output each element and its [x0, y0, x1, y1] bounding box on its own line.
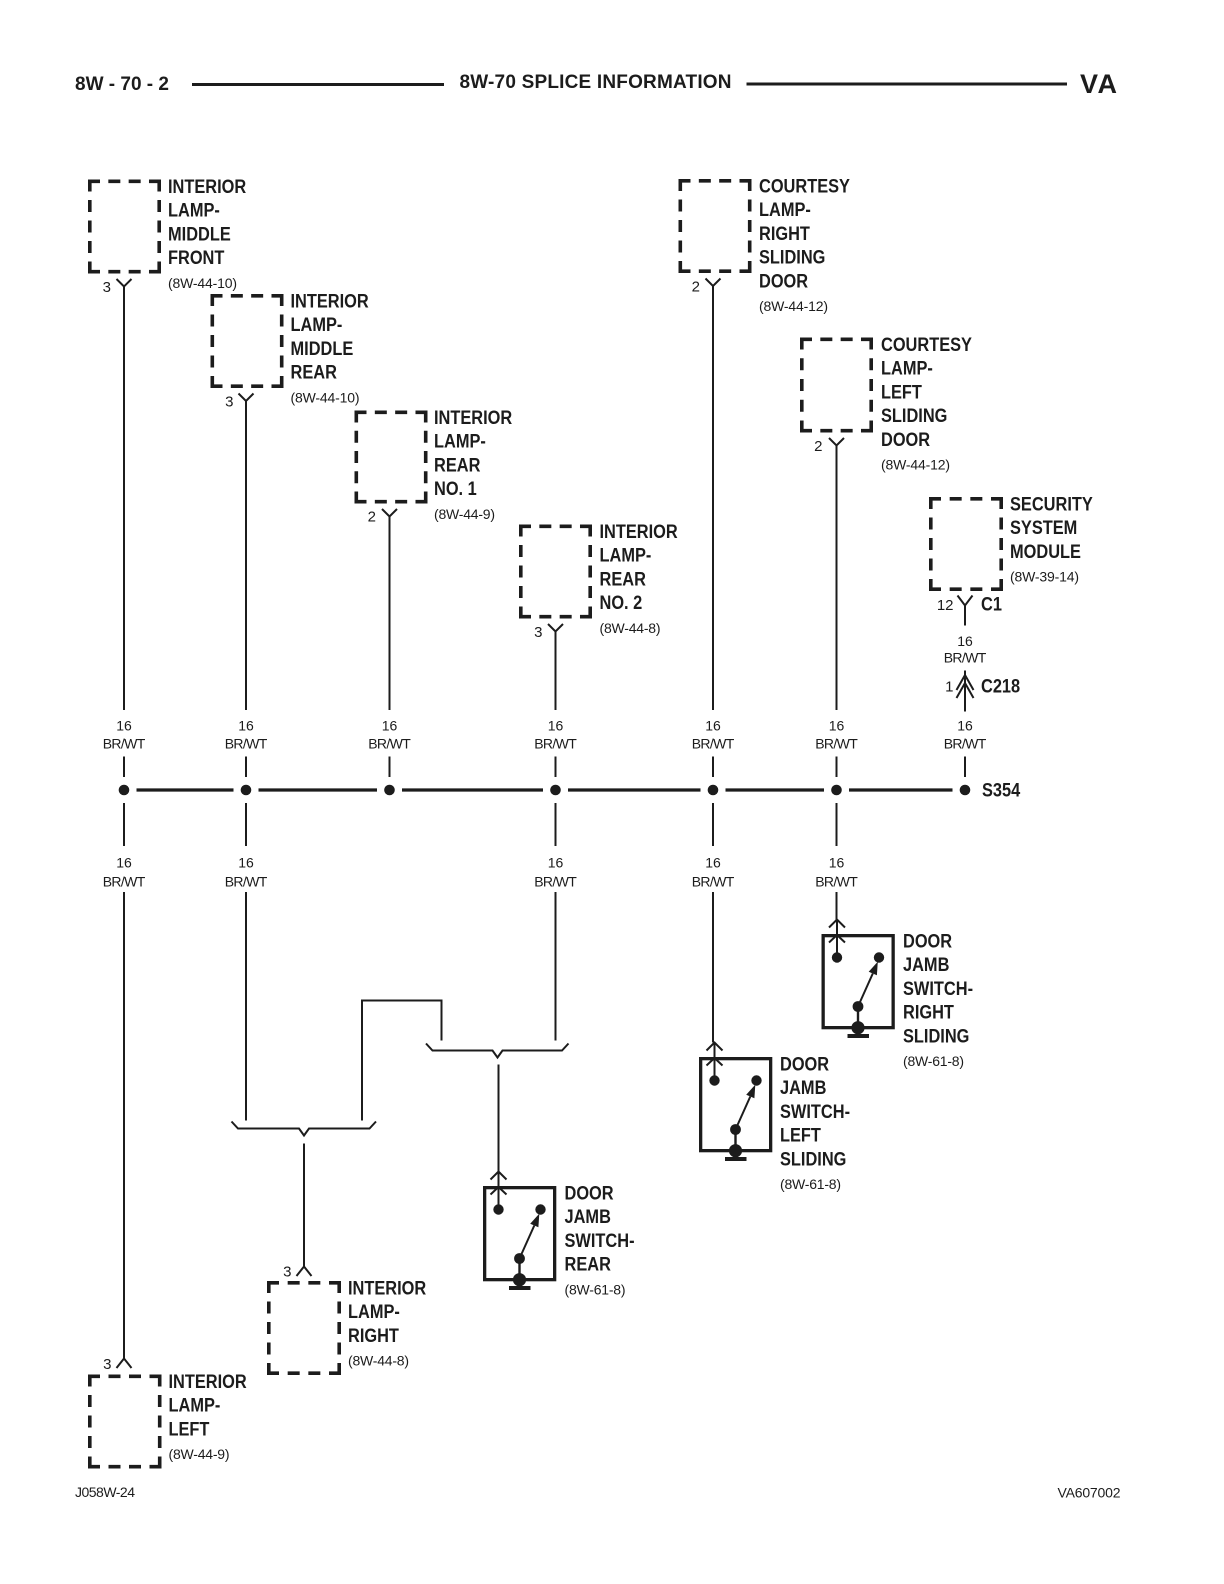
- wire below splice upper segment, x=124: [123, 803, 125, 846]
- svg-text:JAMB: JAMB: [565, 1206, 611, 1228]
- connector C1 symbol at security system module: [958, 596, 973, 606]
- svg-text:2: 2: [368, 509, 376, 526]
- svg-text:SLIDING: SLIDING: [903, 1025, 969, 1047]
- svg-text:LEFT: LEFT: [780, 1124, 821, 1146]
- svg-text:16: 16: [957, 717, 973, 733]
- svg-text:(8W-44-8): (8W-44-8): [348, 1353, 409, 1369]
- merge brace feeding interior lamp-right: [232, 1122, 377, 1136]
- svg-text:INTERIOR: INTERIOR: [291, 290, 369, 312]
- svg-text:LAMP-: LAMP-: [759, 199, 811, 221]
- wire through connector C218: [964, 671, 966, 712]
- splice junction dot at x=124: [119, 785, 130, 796]
- svg-text:SLIDING: SLIDING: [881, 405, 947, 427]
- svg-text:LAMP-: LAMP-: [168, 199, 220, 221]
- svg-text:BR/WT: BR/WT: [534, 735, 577, 751]
- label text COURTESY LAMP-RIGHT SLIDING DOOR: [759, 175, 850, 314]
- wire gauge label 16 BR/WT below splice, x=124: [103, 854, 146, 889]
- svg-text:DOOR: DOOR: [780, 1053, 829, 1075]
- wire below gauge label, x=713: [712, 892, 714, 1043]
- svg-text:3: 3: [534, 624, 542, 641]
- svg-text:REAR: REAR: [565, 1253, 611, 1275]
- wire below gauge label, x=836.5: [836, 892, 838, 920]
- wire gauge label 16 BR/WT below splice, x=713: [692, 854, 735, 889]
- svg-text:SYSTEM: SYSTEM: [1010, 517, 1077, 539]
- svg-text:BR/WT: BR/WT: [692, 735, 735, 751]
- svg-text:16: 16: [238, 854, 254, 870]
- svg-text:RIGHT: RIGHT: [903, 1001, 954, 1023]
- wire gauge label 16 BR/WT below C1: [944, 633, 987, 666]
- svg-text:LAMP-: LAMP-: [881, 357, 933, 379]
- svg-text:16: 16: [705, 717, 721, 733]
- svg-text:(8W-44-9): (8W-44-9): [434, 506, 495, 522]
- wire gauge label 16 BR/WT above splice, x=555.5: [534, 717, 577, 751]
- svg-text:VA: VA: [1080, 69, 1117, 99]
- svg-text:BR/WT: BR/WT: [944, 650, 987, 666]
- svg-text:3: 3: [103, 1356, 111, 1373]
- svg-text:NO. 2: NO. 2: [600, 592, 643, 614]
- svg-text:INTERIOR: INTERIOR: [600, 521, 678, 543]
- wire from brace to door jamb switch-rear: [498, 1065, 500, 1172]
- merge brace feeding door jamb switch-rear: [426, 1044, 569, 1058]
- header right rule: [747, 83, 1068, 86]
- svg-text:3: 3: [225, 394, 233, 411]
- wire gauge label 16 BR/WT above splice, x=246: [225, 717, 268, 751]
- wire from brace to interior lamp-right: [303, 1144, 305, 1267]
- svg-text:BR/WT: BR/WT: [815, 735, 858, 751]
- svg-text:DOOR: DOOR: [903, 930, 952, 952]
- svg-text:(8W-61-8): (8W-61-8): [780, 1176, 841, 1192]
- label text INTERIOR LAMP-REAR NO. 1: [434, 407, 512, 522]
- svg-text:REAR: REAR: [434, 454, 480, 476]
- svg-text:3: 3: [103, 279, 111, 296]
- label text door jamb switch-right sliding label: [903, 930, 973, 1069]
- svg-text:16: 16: [829, 717, 845, 733]
- wire segment above gauge label, x=124: [123, 287, 125, 711]
- splice junction dot at x=965: [960, 785, 971, 796]
- svg-text:16: 16: [116, 717, 132, 733]
- svg-text:DOOR: DOOR: [759, 270, 808, 292]
- svg-text:RIGHT: RIGHT: [759, 223, 810, 245]
- wire below gauge label, x=555.5: [555, 892, 557, 1041]
- svg-text:1: 1: [945, 679, 953, 696]
- svg-text:C218: C218: [981, 675, 1020, 697]
- svg-text:SLIDING: SLIDING: [759, 246, 825, 268]
- svg-text:INTERIOR: INTERIOR: [434, 407, 512, 429]
- svg-text:(8W-44-12): (8W-44-12): [881, 457, 950, 473]
- wire gauge label 16 BR/WT above splice, x=713: [692, 717, 735, 751]
- svg-text:16: 16: [957, 633, 973, 649]
- svg-text:12: 12: [937, 597, 954, 614]
- svg-text:BR/WT: BR/WT: [103, 873, 146, 889]
- connector at interior lamp-rear no. 1 pin 2: [382, 509, 397, 517]
- wire gauge label 16 BR/WT above splice, x=836.5: [815, 717, 858, 751]
- splice junction dot at x=713: [708, 785, 719, 796]
- svg-text:MIDDLE: MIDDLE: [168, 223, 231, 245]
- connector at interior lamp-middle front pin 3: [117, 279, 132, 287]
- header left rule: [192, 83, 444, 86]
- component SECURITY SYSTEM MODULE (dashed box): [929, 497, 1003, 591]
- svg-text:JAMB: JAMB: [780, 1077, 826, 1099]
- splice junction dot at x=555.5: [550, 785, 561, 796]
- svg-text:LAMP-: LAMP-: [434, 430, 486, 452]
- svg-text:REAR: REAR: [291, 361, 337, 383]
- svg-text:J058W-24: J058W-24: [75, 1484, 135, 1500]
- svg-text:SLIDING: SLIDING: [780, 1148, 846, 1170]
- wire below splice upper segment, x=836.5: [836, 803, 838, 846]
- component INTERIOR LAMP-REAR NO. 1 (dashed box): [355, 411, 428, 504]
- svg-text:16: 16: [116, 854, 132, 870]
- svg-text:8W - 70 - 2: 8W - 70 - 2: [75, 74, 169, 95]
- svg-text:NO. 1: NO. 1: [434, 478, 477, 500]
- wire segment above gauge label, x=389.5: [389, 517, 391, 711]
- wire segment below gauge label to splice, x=836.5: [836, 757, 838, 778]
- component INTERIOR LAMP-RIGHT (dashed box): [267, 1281, 341, 1375]
- svg-text:RIGHT: RIGHT: [348, 1325, 399, 1347]
- door jamb switch-rear: [485, 1172, 555, 1289]
- svg-text:2: 2: [692, 279, 700, 296]
- svg-text:REAR: REAR: [600, 568, 646, 590]
- svg-text:DOOR: DOOR: [881, 428, 930, 450]
- svg-text:BR/WT: BR/WT: [692, 873, 735, 889]
- svg-text:SWITCH-: SWITCH-: [903, 978, 973, 1000]
- svg-text:(8W-61-8): (8W-61-8): [565, 1281, 626, 1297]
- label text door jamb switch-rear label: [565, 1182, 635, 1297]
- wire segment below gauge label to splice, x=246: [245, 757, 247, 778]
- label text INTERIOR LAMP-LEFT: [169, 1371, 247, 1462]
- wire below splice upper segment, x=713: [712, 803, 714, 846]
- splice junction dot at x=389.5: [384, 785, 395, 796]
- connector at courtesy lamp-right sliding door pin 2: [706, 279, 721, 287]
- wire segment above gauge label, x=836.5: [836, 446, 838, 711]
- connector at interior lamp-right pin 3: [297, 1267, 312, 1277]
- wire segment above gauge label, x=246: [245, 401, 247, 710]
- component INTERIOR LAMP-MIDDLE FRONT (dashed box): [88, 180, 161, 274]
- svg-text:LEFT: LEFT: [881, 381, 922, 403]
- svg-text:16: 16: [548, 854, 564, 870]
- svg-text:16: 16: [382, 717, 398, 733]
- svg-text:SECURITY: SECURITY: [1010, 493, 1093, 515]
- wire gauge label 16 BR/WT below splice, x=836.5: [815, 854, 858, 889]
- wire segment below gauge label to splice, x=124: [123, 757, 125, 778]
- wire below splice upper segment, x=246: [245, 803, 247, 846]
- svg-text:(8W-61-8): (8W-61-8): [903, 1053, 964, 1069]
- component COURTESY LAMP-RIGHT SLIDING DOOR (dashed box): [679, 179, 752, 273]
- splice bus wire segment 124-246: [137, 788, 234, 791]
- splice bus wire segment 713-836.5: [726, 788, 825, 791]
- svg-text:VA607002: VA607002: [1058, 1485, 1121, 1501]
- svg-text:MIDDLE: MIDDLE: [291, 338, 354, 360]
- svg-text:INTERIOR: INTERIOR: [168, 176, 246, 198]
- svg-text:DOOR: DOOR: [565, 1182, 614, 1204]
- splice bus wire segment 389.5-555.5: [402, 788, 543, 791]
- svg-text:S354: S354: [982, 779, 1020, 801]
- svg-text:JAMB: JAMB: [903, 954, 949, 976]
- splice junction dot at x=246: [241, 785, 252, 796]
- splice bus wire segment 555.5-713: [568, 788, 701, 791]
- svg-text:BR/WT: BR/WT: [944, 735, 987, 751]
- svg-text:INTERIOR: INTERIOR: [348, 1277, 426, 1299]
- door jamb switch-right sliding: [823, 920, 893, 1037]
- component INTERIOR LAMP-MIDDLE REAR (dashed box): [211, 294, 284, 388]
- svg-text:16: 16: [829, 854, 845, 870]
- wire segment below C218 label to splice, x=965: [964, 757, 966, 778]
- label text INTERIOR LAMP-MIDDLE FRONT: [168, 176, 246, 291]
- wire from C1 pin 12 (upper): [964, 606, 966, 626]
- wire gauge label 16 BR/WT below splice, x=555.5: [534, 854, 577, 889]
- svg-text:3: 3: [283, 1264, 291, 1281]
- svg-text:C1: C1: [981, 593, 1002, 615]
- label text INTERIOR LAMP-MIDDLE REAR: [291, 290, 369, 405]
- label text COURTESY LAMP-LEFT SLIDING DOOR: [881, 334, 972, 473]
- wire segment above gauge label, x=555.5: [555, 632, 557, 711]
- svg-text:LAMP-: LAMP-: [348, 1301, 400, 1323]
- svg-text:FRONT: FRONT: [168, 247, 224, 269]
- wire below gauge label, x=246: [245, 892, 247, 1121]
- svg-text:COURTESY: COURTESY: [881, 334, 972, 356]
- svg-text:BR/WT: BR/WT: [225, 735, 268, 751]
- label text door jamb switch-left sliding label: [780, 1053, 850, 1192]
- wire segment below gauge label to splice, x=389.5: [389, 757, 391, 778]
- component INTERIOR LAMP-REAR NO. 2 (dashed box): [519, 525, 592, 619]
- svg-text:BR/WT: BR/WT: [225, 873, 268, 889]
- svg-text:SWITCH-: SWITCH-: [565, 1230, 635, 1252]
- component COURTESY LAMP-LEFT SLIDING DOOR (dashed box): [800, 338, 873, 433]
- wire segment below gauge label to splice, x=713: [712, 757, 714, 778]
- wire gauge label 16 BR/WT below splice, x=246: [225, 854, 268, 889]
- svg-text:MODULE: MODULE: [1010, 541, 1081, 563]
- svg-text:LAMP-: LAMP-: [169, 1394, 221, 1416]
- connector at courtesy lamp-left sliding door pin 2: [829, 438, 844, 446]
- svg-text:16: 16: [238, 717, 254, 733]
- svg-text:COURTESY: COURTESY: [759, 175, 850, 197]
- wire jog (inverted-U) between branches: [362, 1001, 442, 1121]
- svg-text:LAMP-: LAMP-: [600, 544, 652, 566]
- svg-text:INTERIOR: INTERIOR: [169, 1371, 247, 1393]
- connector at interior lamp-middle rear pin 3: [239, 394, 254, 402]
- svg-text:(8W-44-10): (8W-44-10): [291, 389, 360, 405]
- connector at interior lamp-left pin 3: [117, 1359, 132, 1369]
- label text SECURITY SYSTEM MODULE: [1010, 493, 1093, 584]
- svg-text:(8W-44-12): (8W-44-12): [759, 298, 828, 314]
- svg-text:(8W-44-8): (8W-44-8): [600, 620, 661, 636]
- wire below gauge label, x=124: [123, 892, 125, 1359]
- svg-text:LAMP-: LAMP-: [291, 314, 343, 336]
- door jamb switch-left sliding: [701, 1043, 771, 1160]
- in-line connector C218 symbol (double chevron): [957, 675, 974, 690]
- svg-text:(8W-44-10): (8W-44-10): [168, 275, 237, 291]
- svg-text:LEFT: LEFT: [169, 1418, 210, 1440]
- wire gauge label 16 BR/WT above splice, x=389.5: [368, 717, 411, 751]
- splice bus wire segment 246-389.5: [259, 788, 378, 791]
- connector at interior lamp-rear no. 2 pin 3: [548, 624, 563, 632]
- wire gauge label 16 BR/WT above splice, x=124: [103, 717, 146, 751]
- svg-text:16: 16: [548, 717, 564, 733]
- wire segment below gauge label to splice, x=555.5: [555, 757, 557, 778]
- component INTERIOR LAMP-LEFT (dashed box): [88, 1375, 162, 1469]
- svg-text:BR/WT: BR/WT: [815, 873, 858, 889]
- wire segment above gauge label, x=713: [712, 286, 714, 710]
- wire below splice upper segment, x=555.5: [555, 803, 557, 846]
- wire gauge label 16 BR/WT above splice, x=965: [944, 717, 987, 751]
- svg-text:SWITCH-: SWITCH-: [780, 1101, 850, 1123]
- svg-text:(8W-39-14): (8W-39-14): [1010, 569, 1079, 585]
- svg-text:BR/WT: BR/WT: [368, 735, 411, 751]
- svg-text:16: 16: [705, 854, 721, 870]
- svg-text:BR/WT: BR/WT: [103, 735, 146, 751]
- svg-text:2: 2: [814, 438, 822, 455]
- svg-text:(8W-44-9): (8W-44-9): [169, 1446, 230, 1462]
- label text INTERIOR LAMP-REAR NO. 2: [600, 521, 678, 636]
- label text INTERIOR LAMP-RIGHT: [348, 1277, 426, 1368]
- svg-text:8W-70 SPLICE INFORMATION: 8W-70 SPLICE INFORMATION: [460, 72, 732, 93]
- splice bus wire segment 836.5-965: [849, 788, 953, 791]
- svg-text:BR/WT: BR/WT: [534, 873, 577, 889]
- splice junction dot at x=836.5: [831, 785, 842, 796]
